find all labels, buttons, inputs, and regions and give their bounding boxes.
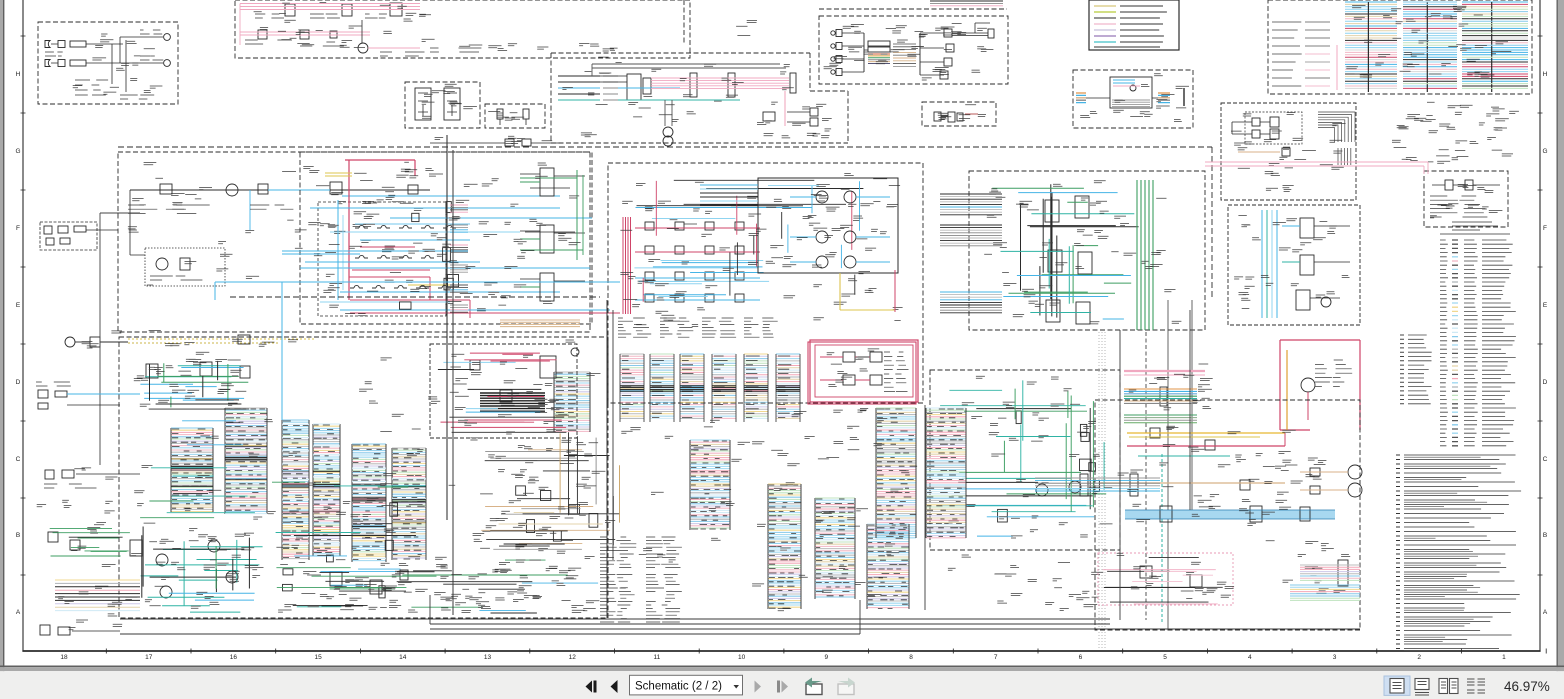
svg-text:H: H [1543, 71, 1548, 78]
svg-text:F: F [1543, 225, 1547, 232]
svg-text:15: 15 [314, 654, 322, 661]
svg-text:9: 9 [824, 654, 828, 661]
toolbar: single page layout (selected) [1384, 676, 1410, 695]
wire bundle: multicolor horizontal near pump [1124, 364, 1230, 456]
wire run: vertical trunks below green box [1099, 300, 1192, 650]
harness block: crimson bordered sub-box [810, 340, 918, 402]
wire list: right side table [1440, 240, 1516, 446]
toolbar: previous page button [611, 680, 618, 693]
harness block: lower-left teal loops [130, 523, 264, 612]
harness block: fan control box B9 [1073, 70, 1193, 128]
status toolbar background [0, 671, 1564, 699]
column number labels bottom and ticks [60, 654, 1506, 661]
harness block: machine harness top strip (pink circuits) [235, 0, 690, 58]
bundle block: striped connector stacks (left) [170, 408, 427, 562]
svg-text:H: H [16, 71, 21, 78]
toolbar: continuous layout [1415, 679, 1429, 696]
toolbar: next view button (disabled) [838, 678, 855, 695]
harness block: engine harness box (L-shaped) [551, 52, 810, 54]
svg-text:17: 17 [145, 654, 153, 661]
svg-text:B: B [16, 532, 20, 539]
svg-text:E: E [1543, 302, 1548, 309]
component row: below engine box [430, 136, 560, 146]
toolbar: two page continuous layout [1467, 679, 1485, 693]
label noise: center bottom region [621, 409, 1104, 611]
svg-text:2: 2 [1417, 654, 1421, 661]
toolbar: page select combo box [630, 675, 743, 695]
svg-text:11: 11 [654, 654, 661, 661]
harness block: alternator circuit box U1 [819, 16, 1008, 84]
svg-text:3: 3 [1333, 654, 1337, 661]
bundle block: tan cluster right of stacks [480, 432, 620, 553]
svg-text:14: 14 [399, 654, 407, 661]
far left column: D row small parts [36, 382, 140, 409]
toolbar: first page button [586, 681, 593, 693]
wire run: crimson loop with beacon [1280, 340, 1360, 430]
relay block: relays pair left [405, 82, 480, 128]
svg-text:F: F [16, 225, 20, 232]
svg-text:C: C [1543, 456, 1548, 463]
svg-text:4: 4 [1248, 654, 1252, 661]
wire bundle: gray-cyan rows above band [1035, 474, 1160, 496]
svg-text:1: 1 [1502, 654, 1506, 661]
harness block: red-bordered distribution (center) [808, 342, 916, 404]
window right border strip [1557, 0, 1558, 672]
schematic sheet right border line [1539, 0, 1541, 652]
svg-text:C: C [16, 456, 21, 463]
component cluster: bottom middle small [301, 562, 581, 612]
svg-text:Schematic (2 / 2): Schematic (2 / 2) [635, 681, 722, 693]
bundle column: small striped stack [554, 372, 590, 432]
schematic sheet left border line [22, 0, 24, 652]
wire network: wiper/control mesh box [300, 152, 592, 324]
toolbar: last page button (disabled) [777, 681, 780, 693]
harness block: center distribution box [608, 163, 923, 403]
far left column: connector cluster F row [40, 222, 97, 250]
row letter labels left/right and ticks [15, 71, 1547, 616]
svg-text:G: G [1542, 148, 1547, 155]
connector bundles: bottom right [1290, 560, 1360, 600]
window left border strip [0, 0, 3, 672]
svg-text:13: 13 [484, 654, 492, 661]
svg-text:18: 18 [60, 654, 68, 661]
svg-text:8: 8 [909, 654, 913, 661]
harness block: operator station box B10 [1221, 103, 1356, 200]
svg-text:A: A [16, 609, 21, 616]
wire run: pink long horizontals right [1205, 162, 1428, 174]
harness block: bottom right box border [1095, 400, 1360, 630]
harness block: big bottom-left box border [119, 337, 608, 618]
wire run: yellow and crimson feeds [1100, 426, 1296, 624]
svg-text:A: A [1543, 609, 1548, 616]
symbol legend: left of wire list [1400, 335, 1432, 404]
wire run: light blue trunk band [1125, 495, 1335, 526]
harness block: right control box (green circuits) [969, 171, 1205, 330]
long verticals: harness trunks [447, 135, 1190, 620]
svg-text:46.97%: 46.97% [1504, 679, 1550, 694]
connector list: bottom of center box [618, 318, 778, 337]
far left column: bottom clusters [37, 468, 140, 635]
bundle columns: center bottom pairs [690, 408, 966, 609]
svg-text:10: 10 [738, 654, 746, 661]
harness block: dense multi-circuit block (top right) [1268, 0, 1532, 94]
harness block: steering column circuit (top left) [38, 22, 178, 104]
toolbar: previous view button [805, 678, 822, 695]
svg-text:6: 6 [1079, 654, 1083, 661]
wire run: long cyan horizontal [215, 282, 620, 420]
svg-text:D: D [1543, 379, 1548, 386]
connector block: small right box [1424, 171, 1508, 227]
toolbar: next page button (disabled) [755, 681, 762, 693]
notes: bottom right text block [1396, 222, 1521, 651]
component cluster: bottom-left extra wiring [134, 340, 600, 613]
lamp cluster: circles bottom right [1249, 458, 1362, 497]
connector block: small center box [922, 102, 996, 126]
connector pin list columns (bottom left-center) [600, 537, 682, 622]
svg-text:E: E [16, 302, 21, 309]
schematic sheet bottom border line [22, 650, 1540, 652]
wire run: yellow dotted circuit [65, 331, 316, 348]
toolbar: two page layout [1439, 679, 1458, 694]
legend box: circuit color legend [1089, 0, 1179, 50]
harness block: mid cyan cluster box [430, 344, 577, 438]
harness block: pink dotted cluster [1098, 553, 1233, 605]
bus lines: long bottom runs [120, 595, 1360, 634]
svg-text:12: 12 [569, 654, 577, 661]
bundle fan: multi-connector stacks below center box [620, 354, 800, 422]
harness block: right cyan riser box [1228, 205, 1360, 325]
harness block: cab harness big left box [118, 152, 590, 332]
svg-text:D: D [16, 379, 21, 386]
svg-text:G: G [15, 148, 20, 155]
svg-text:16: 16 [230, 654, 238, 661]
svg-text:7: 7 [994, 654, 998, 661]
svg-text:5: 5 [1163, 654, 1167, 661]
dashed separation line mid sheet [118, 146, 1212, 148]
harness block: top middle sliver [683, 0, 685, 43]
harness block: upper-left green cluster [134, 352, 250, 407]
label block: dense dark text block [480, 393, 545, 411]
svg-text:B: B [1543, 532, 1547, 539]
valve block: solenoid pairs sub-box [758, 178, 898, 273]
connector block: symbols pair left [485, 104, 545, 128]
window bottom border [0, 666, 1564, 668]
harness block: right lower control box [930, 370, 1120, 550]
